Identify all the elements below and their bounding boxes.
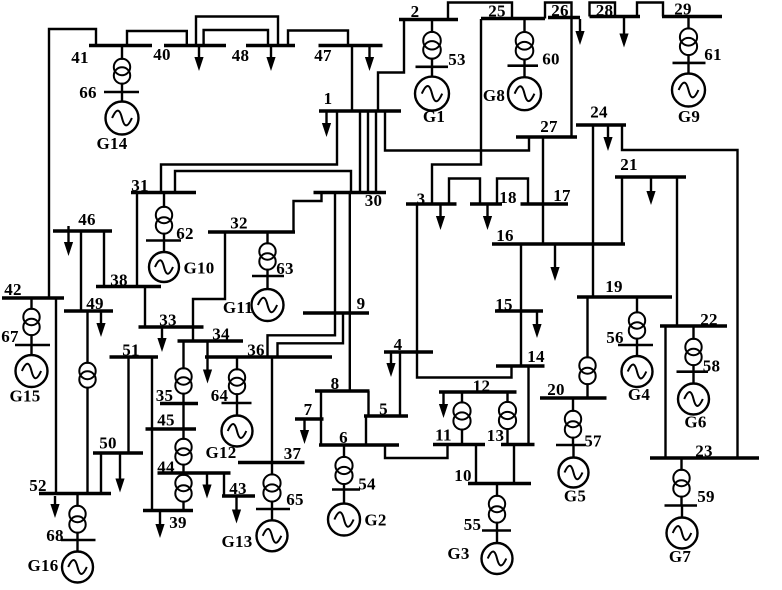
svg-text:51: 51	[122, 341, 140, 360]
svg-text:7: 7	[304, 400, 313, 419]
svg-text:G15: G15	[9, 387, 40, 406]
svg-text:43: 43	[229, 479, 247, 498]
svg-text:G7: G7	[669, 547, 692, 566]
svg-text:9: 9	[357, 294, 366, 313]
svg-text:10: 10	[454, 466, 472, 485]
svg-text:56: 56	[606, 328, 624, 347]
svg-text:40: 40	[153, 45, 171, 64]
svg-text:36: 36	[247, 341, 265, 360]
svg-text:35: 35	[156, 386, 174, 405]
svg-text:24: 24	[590, 103, 608, 122]
svg-text:59: 59	[697, 487, 715, 506]
svg-text:2: 2	[411, 2, 420, 21]
svg-text:23: 23	[695, 442, 713, 461]
svg-text:G11: G11	[223, 298, 253, 317]
svg-text:G14: G14	[96, 134, 127, 153]
svg-text:50: 50	[99, 434, 117, 453]
svg-text:30: 30	[365, 191, 383, 210]
svg-text:55: 55	[464, 515, 482, 534]
svg-text:21: 21	[620, 155, 638, 174]
svg-text:G16: G16	[27, 556, 58, 575]
svg-text:60: 60	[542, 50, 560, 69]
svg-text:G12: G12	[205, 443, 236, 462]
svg-text:68: 68	[46, 526, 64, 545]
svg-text:28: 28	[596, 1, 614, 20]
svg-text:G9: G9	[678, 107, 700, 126]
svg-text:67: 67	[1, 327, 19, 346]
svg-text:41: 41	[71, 48, 89, 67]
svg-text:G1: G1	[423, 107, 445, 126]
svg-text:15: 15	[495, 295, 513, 314]
svg-text:G13: G13	[221, 532, 252, 551]
svg-text:46: 46	[78, 210, 96, 229]
svg-text:G4: G4	[628, 385, 651, 404]
svg-text:26: 26	[551, 1, 569, 20]
svg-text:18: 18	[499, 188, 517, 207]
svg-text:19: 19	[605, 277, 623, 296]
svg-text:8: 8	[331, 374, 340, 393]
svg-text:25: 25	[488, 2, 506, 21]
svg-text:64: 64	[211, 386, 229, 405]
svg-text:5: 5	[379, 400, 388, 419]
svg-text:31: 31	[131, 176, 149, 195]
svg-text:49: 49	[86, 294, 104, 313]
svg-text:G3: G3	[447, 544, 469, 563]
svg-text:27: 27	[540, 117, 558, 136]
svg-text:42: 42	[4, 280, 22, 299]
svg-text:48: 48	[232, 46, 250, 65]
svg-text:G6: G6	[684, 413, 706, 432]
svg-text:G2: G2	[364, 511, 386, 530]
svg-text:G5: G5	[564, 487, 586, 506]
svg-text:12: 12	[473, 377, 491, 396]
svg-text:61: 61	[704, 45, 722, 64]
svg-text:16: 16	[496, 226, 514, 245]
svg-text:39: 39	[169, 513, 187, 532]
svg-text:58: 58	[703, 357, 721, 376]
svg-text:53: 53	[448, 50, 466, 69]
svg-text:54: 54	[358, 475, 376, 494]
svg-text:57: 57	[584, 432, 602, 451]
svg-text:1: 1	[324, 89, 333, 108]
svg-text:52: 52	[29, 476, 47, 495]
svg-text:34: 34	[212, 325, 230, 344]
svg-text:37: 37	[284, 444, 302, 463]
svg-text:66: 66	[79, 83, 97, 102]
svg-text:G10: G10	[183, 259, 214, 278]
svg-text:11: 11	[435, 426, 452, 445]
svg-text:38: 38	[110, 271, 128, 290]
svg-text:17: 17	[553, 186, 571, 205]
svg-text:14: 14	[527, 347, 545, 366]
svg-text:29: 29	[674, 0, 692, 19]
svg-text:62: 62	[176, 224, 194, 243]
svg-text:32: 32	[230, 214, 248, 233]
svg-text:33: 33	[159, 311, 177, 330]
svg-text:45: 45	[157, 411, 175, 430]
svg-text:65: 65	[286, 490, 304, 509]
svg-text:63: 63	[276, 259, 294, 278]
svg-text:3: 3	[417, 190, 426, 209]
svg-text:6: 6	[339, 428, 348, 447]
svg-text:44: 44	[157, 458, 175, 477]
svg-text:13: 13	[487, 426, 505, 445]
svg-text:G8: G8	[483, 86, 505, 105]
svg-text:22: 22	[700, 310, 718, 329]
svg-text:20: 20	[547, 380, 565, 399]
svg-text:4: 4	[394, 335, 403, 354]
svg-text:47: 47	[314, 46, 332, 65]
